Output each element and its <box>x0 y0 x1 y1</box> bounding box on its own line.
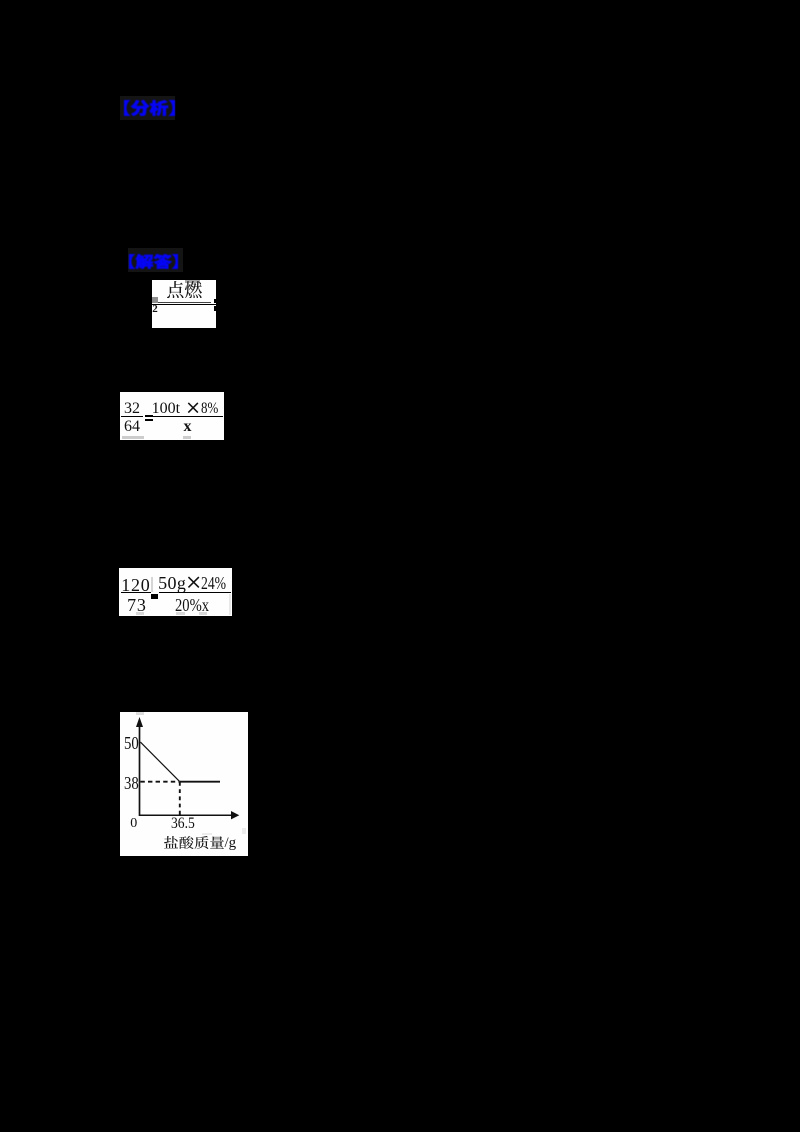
eq2 equals square <box>151 594 158 600</box>
eq2 24 percent <box>201 573 226 594</box>
eq1 numerator 32 <box>124 400 140 418</box>
right glyph fragment bottom <box>214 306 217 311</box>
eq1 gray smudge right <box>183 436 191 439</box>
eq1 right fraction bar <box>153 416 223 417</box>
graph label 0 <box>130 816 137 832</box>
eq2 numerator 120 <box>121 575 150 596</box>
graph label 36.5 <box>171 815 195 833</box>
x axis title 盐酸质量 <box>164 836 224 849</box>
eq2 right edge band <box>229 594 231 615</box>
dashed horizontal at 38 <box>140 781 179 783</box>
analysis label text 【分析】 <box>124 100 175 116</box>
eq2 right fraction bar <box>159 592 232 594</box>
dashed vertical at 36.5 <box>179 782 181 815</box>
eq1 8 percent <box>201 400 218 418</box>
eq2 gray band <box>151 577 154 592</box>
graph drawing <box>120 712 248 856</box>
ignite condition image box <box>152 280 216 328</box>
eq2 denominator 20%x <box>175 595 209 616</box>
x axis <box>140 814 233 816</box>
eq1 times sign <box>187 402 199 414</box>
subscript 2 fragment <box>152 303 158 315</box>
arrow lower line <box>152 304 216 306</box>
descending curve <box>140 742 179 782</box>
eq2 left fraction bar <box>121 592 151 594</box>
graph label 38 <box>124 773 139 794</box>
arrow upper line <box>157 302 212 303</box>
eq1 gray smudge left <box>122 436 144 439</box>
gray fragment square <box>152 297 158 303</box>
chart lower smudge <box>202 833 212 836</box>
eq2 smudge b <box>176 612 185 614</box>
x axis arrowhead <box>231 811 239 819</box>
answer label panel <box>128 248 183 272</box>
eq2 times sign <box>187 576 200 589</box>
right glyph fragment top <box>214 299 217 304</box>
answer label text 【解答】 <box>129 254 178 269</box>
eq2 smudge c <box>199 612 207 614</box>
x axis title /g <box>225 835 237 852</box>
graph label 50 <box>124 733 139 754</box>
eq1 equals bottom bar <box>145 419 153 421</box>
equation 2 image box <box>119 568 232 616</box>
eq2 numerator 50g <box>158 573 186 594</box>
y axis <box>139 724 141 816</box>
chart corner smudge <box>242 828 246 834</box>
graph image box <box>120 712 248 856</box>
eq2 denominator 73 <box>127 595 147 616</box>
analysis label panel <box>120 96 175 120</box>
equation 1 image box <box>120 392 224 440</box>
eq1 denominator 64 <box>124 418 140 436</box>
graph top gray mark <box>136 712 144 714</box>
y axis arrowhead <box>136 717 143 727</box>
ignite text 点燃 <box>167 281 202 299</box>
solid horizontal plateau <box>180 781 220 783</box>
eq1 equals top bar <box>145 415 153 417</box>
eq1 left fraction bar <box>121 416 143 417</box>
ignite gray cap <box>185 280 200 283</box>
eq1 denominator x <box>184 418 192 436</box>
eq1 numerator 100t <box>152 400 180 418</box>
eq2 smudge a <box>136 612 144 614</box>
